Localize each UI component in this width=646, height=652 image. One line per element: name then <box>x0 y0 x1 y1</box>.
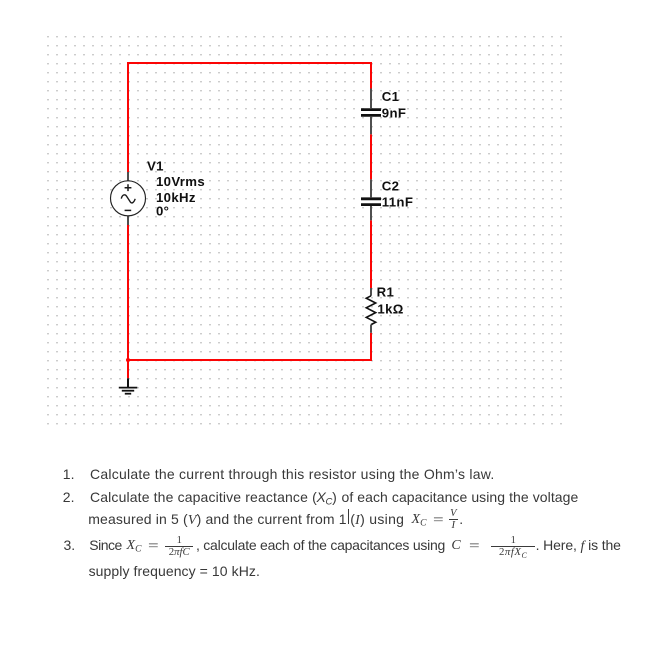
instruction text line 2 <box>63 490 75 506</box>
ground bar 3 <box>125 393 131 395</box>
fraction 1/2pifXc <box>491 536 535 562</box>
capacitor C2 plates <box>361 197 381 200</box>
wire right segment 2 <box>370 134 372 179</box>
voltage source V1 pin top <box>127 172 129 181</box>
capacitor C2 pin bottom <box>370 206 372 220</box>
svg-text:10Vrms: 10Vrms <box>156 174 205 189</box>
svg-text:11nF: 11nF <box>382 195 413 210</box>
svg-text:R1: R1 <box>377 285 395 300</box>
junction node <box>126 358 130 362</box>
V1 plus sign <box>125 184 132 191</box>
svg-text:1kΩ: 1kΩ <box>377 302 403 317</box>
instruction text line 1 <box>63 467 75 483</box>
fraction V/I <box>449 509 459 532</box>
wire top (net) <box>127 62 372 64</box>
V1 minus sign <box>125 209 132 211</box>
instruction text line 4 <box>64 538 76 554</box>
svg-text:C2: C2 <box>382 178 400 193</box>
capacitor C1 plates <box>361 108 381 111</box>
capacitor C1 pin top <box>370 89 372 109</box>
ground stem <box>127 378 129 387</box>
resistor R1 zigzag <box>366 296 375 325</box>
wire left lower <box>127 225 129 378</box>
svg-text:V1: V1 <box>147 159 164 174</box>
instruction text line 3 <box>88 512 347 529</box>
instruction text line 5 <box>89 564 260 580</box>
fraction 1/2pifC <box>165 536 193 559</box>
wire right segment 3 <box>370 220 372 288</box>
wire bottom (net) <box>127 359 372 361</box>
wire right segment 1 <box>370 62 372 89</box>
capacitor C1 pin bottom <box>370 117 372 135</box>
wire right segment 4 <box>370 333 372 361</box>
voltage source V1 pin bottom <box>127 216 129 225</box>
svg-text:C1: C1 <box>382 89 400 104</box>
svg-text:0°: 0° <box>156 203 169 218</box>
text caret artifact <box>348 509 349 524</box>
voltage source V1 body <box>111 181 146 216</box>
V1 sine wave <box>121 195 135 203</box>
grid of dots <box>46 35 563 425</box>
capacitor C2 pin top <box>370 179 372 197</box>
resistor R1 pin top <box>370 288 372 296</box>
ground bar 2 <box>122 390 134 392</box>
resistor R1 pin bottom <box>370 325 372 333</box>
svg-text:9nF: 9nF <box>382 106 407 121</box>
wire left upper <box>127 62 129 172</box>
ground bar 1 <box>119 387 138 389</box>
